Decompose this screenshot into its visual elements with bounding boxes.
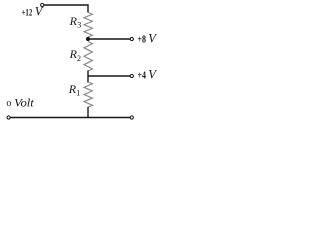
terminal +4V	[130, 74, 133, 77]
label R1	[68, 82, 81, 98]
svg-text:1: 1	[76, 89, 80, 98]
svg-text:+8: +8	[138, 34, 147, 45]
svg-text:2: 2	[77, 54, 81, 63]
label R3	[69, 14, 82, 29]
svg-text:o: o	[6, 98, 11, 109]
label +12 V	[22, 4, 44, 18]
resistor R1	[84, 82, 92, 107]
terminal +8V	[130, 37, 133, 40]
wire 4V tap	[88, 75, 130, 77]
terminal +12V	[41, 3, 44, 6]
label 0 Volt	[6, 95, 34, 109]
svg-text:V: V	[148, 68, 157, 82]
terminal 0V left	[7, 116, 10, 119]
label +8 V	[138, 32, 158, 46]
resistor R3	[84, 13, 92, 38]
wire 8V tap	[88, 38, 130, 40]
svg-text:+12: +12	[22, 9, 33, 19]
terminal bottom right	[130, 116, 133, 119]
svg-text:Volt: Volt	[14, 95, 34, 109]
resistor R2	[84, 42, 92, 72]
svg-text:+4: +4	[138, 71, 147, 82]
svg-text:V: V	[148, 32, 157, 46]
wire	[87, 107, 89, 118]
label R2	[69, 47, 81, 63]
label +4 V	[138, 68, 158, 82]
wire	[87, 71, 89, 83]
node junction dot	[86, 37, 90, 41]
svg-text:3: 3	[77, 20, 81, 29]
wire	[44, 5, 88, 13]
wire bottom	[11, 117, 131, 119]
